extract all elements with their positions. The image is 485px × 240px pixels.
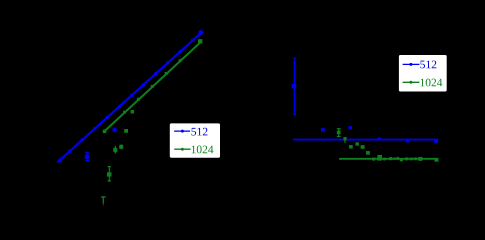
blue square marker a (right plot) [321, 128, 325, 131]
blue end circle (right plot) [434, 139, 438, 143]
green square marker 3 with stem (left plot) [119, 144, 123, 149]
green errorbar x=109 (left plot) [107, 167, 112, 182]
green line markers (left plot) [103, 59, 182, 133]
blue line markers (left plot) [58, 39, 194, 162]
blue square marker b (right plot) [349, 126, 352, 129]
green T errorbar (left plot) [101, 197, 105, 206]
blue square below line (right plot) [406, 139, 409, 142]
blue line 512 (left plot) [57, 31, 203, 162]
blue round marker (left plot) [112, 127, 117, 132]
blue triangle marker on line (right plot) [377, 137, 382, 140]
legend right [399, 55, 447, 92]
green end marker (left plot) [198, 39, 202, 43]
blue tall errorbar (right plot) [292, 58, 296, 115]
green marker with errorbar x=115 (left plot) [113, 146, 117, 154]
green line 1024 (left plot) [103, 42, 201, 133]
green squares on line (right plot) [372, 155, 438, 162]
green line 1024 (right plot) [339, 158, 438, 160]
green scatter squares (right plot) [349, 142, 370, 154]
blue errorbar x=87 (left plot) [85, 152, 89, 161]
green square marker 2 (left plot) [124, 129, 128, 133]
green square with stem crossing blue line (right plot) [343, 137, 346, 143]
green errorbar x=339 (right plot) [337, 129, 341, 137]
blue line 512 (right plot) [293, 139, 438, 141]
legend left [170, 123, 220, 157]
blue end marker (left plot) [199, 30, 204, 35]
green square marker 1 (left plot) [131, 110, 135, 114]
